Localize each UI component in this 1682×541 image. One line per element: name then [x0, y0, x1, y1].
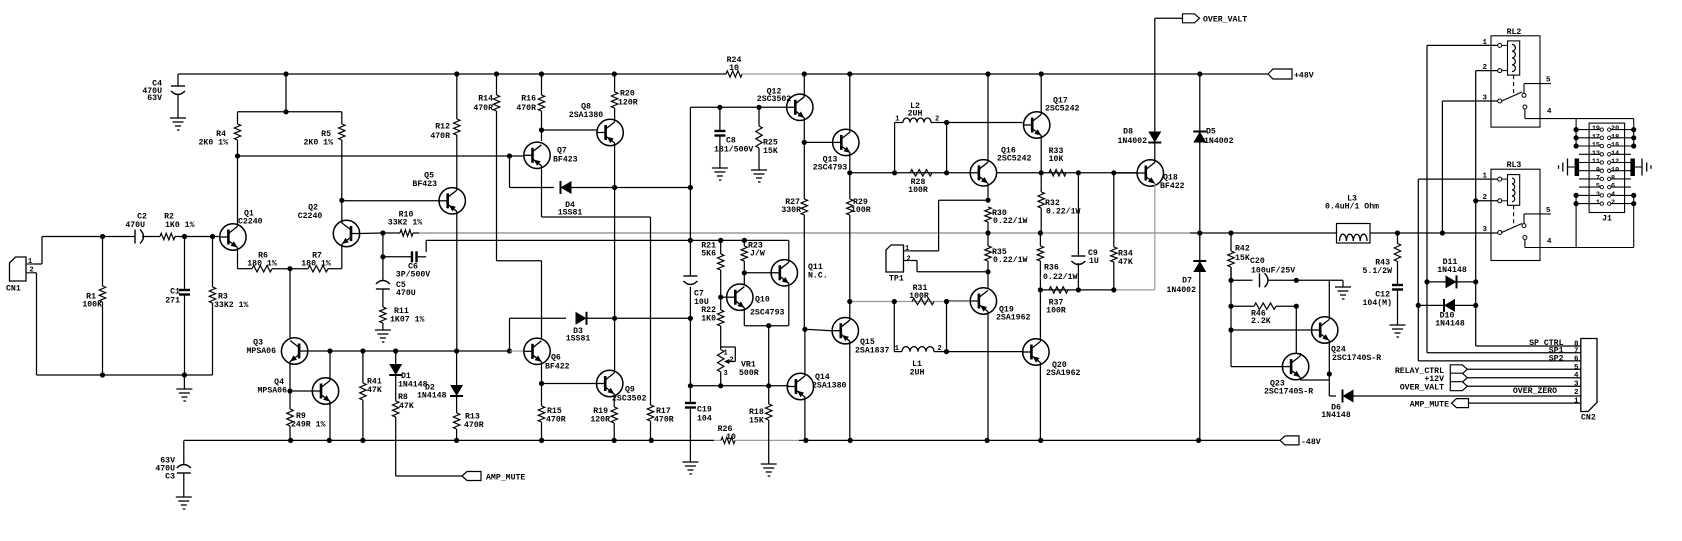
resistor R41: [360, 351, 382, 440]
resistor R3: [209, 237, 248, 310]
svg-text:1SS81: 1SS81: [566, 334, 591, 343]
svg-text:Q7: Q7: [557, 147, 567, 156]
svg-text:R8: R8: [398, 393, 408, 402]
power +48V tag: [1268, 69, 1314, 81]
svg-text:BF422: BF422: [1160, 182, 1185, 191]
svg-text:2K0 1%: 2K0 1%: [304, 139, 334, 148]
resistor R19: [590, 407, 617, 440]
svg-text:1SS81: 1SS81: [558, 209, 583, 218]
resistor R18: [749, 386, 772, 464]
resistor R13: [453, 413, 483, 441]
wire Q13 emitter drive line: [847, 170, 970, 175]
svg-text:330R: 330R: [781, 206, 801, 215]
wire Q12 base column: [689, 107, 691, 403]
svg-text:2SC4793: 2SC4793: [813, 163, 847, 172]
capacitor C19: [685, 403, 712, 462]
svg-text:470R: 470R: [473, 104, 493, 113]
wire Q7 collector to R17: [542, 166, 651, 405]
resistor R43: [1363, 233, 1401, 285]
node Q1 collector / Q7 base line: [235, 153, 524, 158]
svg-text:3: 3: [1574, 381, 1579, 389]
resistor R20: [611, 74, 637, 122]
wire R14 to Q6 collector: [497, 111, 542, 338]
svg-text:1: 1: [895, 345, 899, 353]
wire input ground bus: [100, 303, 213, 378]
svg-text:180 1%: 180 1%: [301, 259, 331, 268]
diode D11: [1427, 258, 1476, 288]
transistor Q13: [813, 74, 859, 173]
transistor Q18: [1114, 145, 1185, 290]
svg-text:4: 4: [1547, 108, 1552, 116]
transistor Q6: [524, 338, 570, 383]
wire Q3 base line: [330, 348, 524, 353]
net AMP_MUTE tag cn2: [1410, 399, 1581, 410]
net RELAY_CTRL tag: [1395, 365, 1581, 376]
resistor R8: [393, 393, 414, 476]
svg-text:5.1/2W: 5.1/2W: [1363, 266, 1393, 276]
node R35 bottom: [985, 269, 990, 288]
resistor R10: [383, 211, 422, 237]
svg-text:Q10: Q10: [755, 296, 770, 305]
svg-text:1N4148: 1N4148: [1435, 319, 1465, 328]
svg-text:5: 5: [1574, 364, 1579, 372]
svg-text:CN1: CN1: [6, 285, 21, 294]
wire J1 top bus: [1525, 119, 1636, 149]
connector TP1: [886, 245, 911, 284]
svg-text:CN2: CN2: [1581, 414, 1596, 423]
svg-text:J/W: J/W: [750, 249, 765, 259]
svg-text:4: 4: [1574, 372, 1579, 380]
svg-text:TP1: TP1: [889, 275, 904, 284]
svg-text:271: 271: [165, 297, 180, 306]
svg-text:2.2K: 2.2K: [1251, 317, 1271, 326]
wire TP1 pin1: [911, 200, 988, 251]
wire RL2 pin1 long: [1427, 44, 1498, 46]
svg-text:10K: 10K: [1049, 155, 1064, 164]
svg-text:1K0: 1K0: [701, 315, 716, 324]
svg-text:180 1%: 180 1%: [247, 259, 277, 268]
resistor R15: [538, 384, 565, 441]
resistor R42: [1228, 233, 1250, 280]
wire CN1 pin2 to ground bus: [34, 273, 103, 375]
resistor R5: [304, 112, 345, 201]
svg-text:63V: 63V: [147, 94, 162, 103]
transistor Q12: [757, 74, 813, 142]
svg-text:2UH: 2UH: [908, 109, 923, 118]
transistor Q9: [597, 370, 647, 407]
svg-text:0.4uH/1 Ohm: 0.4uH/1 Ohm: [1325, 201, 1379, 211]
resistor R33: [997, 147, 1138, 176]
svg-text:-48V: -48V: [1301, 438, 1321, 447]
wire PNP drive return line: [1038, 287, 1155, 292]
J1 shield symbol right: [1635, 159, 1651, 176]
svg-text:33K2 1%: 33K2 1%: [388, 219, 422, 228]
diode D1: [389, 351, 427, 401]
wire VAS bias line: [426, 238, 788, 252]
svg-text:2SC5242: 2SC5242: [997, 155, 1031, 164]
svg-text:47K: 47K: [367, 386, 382, 395]
svg-text:104(M): 104(M): [1363, 298, 1392, 308]
svg-text:R20: R20: [620, 90, 635, 99]
svg-text:OVER_VALT: OVER_VALT: [1203, 16, 1247, 25]
resistor R16: [516, 74, 544, 141]
ground R18: [761, 464, 777, 476]
resistor R7: [290, 252, 342, 272]
svg-text:470R: 470R: [654, 416, 674, 425]
svg-text:D7: D7: [1182, 277, 1192, 286]
node R23 Q11 base Q10 collector: [742, 270, 772, 285]
svg-text:2SA1962: 2SA1962: [996, 313, 1030, 322]
svg-text:6: 6: [1574, 355, 1579, 363]
resistor R34: [1111, 173, 1133, 290]
capacitor C8: [714, 107, 753, 168]
wire C20 ground branch: [1296, 280, 1351, 299]
wire Q5 collector to D2 chain: [456, 211, 458, 351]
text OVER_ZERO: [1513, 387, 1557, 396]
wire RL2 pin2 long: [1476, 70, 1498, 72]
ground C12: [1390, 325, 1406, 337]
wire -48V bottom rail: [184, 438, 1280, 443]
relay RL2: [1482, 28, 1552, 127]
capacitor C12: [1363, 285, 1403, 325]
transistor Q7: [524, 142, 578, 168]
wire Q7 base jog: [510, 156, 555, 188]
wire SP1 column: [1424, 45, 1580, 352]
svg-text:R36: R36: [1044, 264, 1059, 273]
svg-text:15K: 15K: [749, 417, 764, 426]
svg-text:R16: R16: [521, 95, 536, 104]
svg-text:0.22/1W: 0.22/1W: [993, 216, 1027, 226]
svg-text:Q6: Q6: [551, 354, 561, 363]
capacitor C3: [155, 440, 190, 497]
wire D3 feed: [510, 318, 567, 351]
resistor R23: [741, 240, 765, 272]
connector CN2: [1581, 339, 1597, 423]
svg-text:2: 2: [935, 115, 939, 123]
J1 shield symbol left: [1559, 159, 1575, 176]
resistor R32: [1038, 173, 1080, 233]
svg-text:D8: D8: [1123, 128, 1133, 137]
svg-text:2SA1837: 2SA1837: [855, 346, 889, 355]
node Q16 emitter TP tap: [985, 198, 990, 203]
wire RL2 pin3 riser: [1442, 101, 1497, 233]
svg-text:1: 1: [1574, 398, 1579, 406]
net OVER_VALT tag cn2: [1400, 382, 1581, 393]
potentiometer VR1: [718, 346, 759, 386]
diode D3: [566, 312, 693, 344]
ground C3: [176, 497, 192, 509]
svg-text:BF423: BF423: [553, 156, 578, 165]
svg-text:C8: C8: [726, 137, 736, 146]
wire Q12 base line: [690, 105, 786, 110]
svg-text:470U: 470U: [125, 221, 145, 230]
resistor R12: [430, 74, 460, 188]
resistor R9: [287, 391, 326, 440]
text SP_CTRL SP1 SP2: [1529, 339, 1563, 363]
svg-text:104: 104: [697, 415, 712, 424]
transistor Q23: [1231, 306, 1329, 396]
wire Q8 collector column: [612, 143, 617, 370]
resistor R36: [1037, 233, 1077, 290]
svg-text:5K6: 5K6: [701, 250, 716, 259]
svg-text:1: 1: [724, 350, 728, 358]
ground C4: [170, 118, 186, 130]
transistor Q19: [947, 288, 1031, 441]
svg-text:100R: 100R: [851, 206, 871, 215]
svg-text:2: 2: [907, 256, 911, 264]
ground C8: [712, 168, 728, 180]
svg-text:2: 2: [1574, 389, 1579, 397]
transistor Q15: [832, 299, 889, 441]
resistor R30: [985, 207, 1028, 233]
svg-text:1N4148: 1N4148: [417, 392, 447, 401]
svg-text:0.22/1W: 0.22/1W: [1043, 272, 1077, 282]
inductor L1: [894, 302, 949, 378]
node Q23 Q24 collectors: [1327, 371, 1332, 396]
svg-text:33K2 1%: 33K2 1%: [214, 301, 248, 310]
resistor R24: [726, 56, 742, 77]
diode D5: [1193, 74, 1233, 233]
svg-text:470R: 470R: [464, 421, 484, 430]
svg-text:AMP_MUTE: AMP_MUTE: [486, 474, 525, 483]
svg-text:MPSA06: MPSA06: [258, 387, 288, 396]
resistor R35: [985, 233, 1028, 272]
diode D7: [1167, 233, 1207, 440]
svg-text:0.22/1W: 0.22/1W: [993, 255, 1027, 265]
ground R11: [375, 330, 391, 342]
diode D10: [1418, 299, 1475, 328]
connector J1: [1589, 123, 1625, 223]
svg-text:2SC1740S-R: 2SC1740S-R: [1332, 354, 1381, 363]
wire rail feed to R4 R5: [238, 74, 342, 114]
svg-text:3: 3: [724, 370, 728, 378]
svg-text:2: 2: [30, 267, 34, 275]
svg-text:470R: 470R: [430, 132, 450, 141]
svg-text:2SC3502: 2SC3502: [612, 395, 646, 404]
transistor Q4: [258, 348, 339, 440]
transistor Q10: [721, 284, 785, 318]
wire +48V top rail: [178, 71, 1268, 76]
wire bias bottom line: [688, 383, 789, 388]
wire SP_CTRL column: [1473, 71, 1581, 346]
node Q9 base tee: [539, 381, 596, 386]
svg-text:C2240: C2240: [238, 218, 263, 227]
svg-text:C19: C19: [697, 406, 712, 415]
svg-text:3P/500V: 3P/500V: [396, 270, 430, 280]
svg-text:470R: 470R: [516, 104, 536, 113]
wire mute left column: [1228, 267, 1233, 367]
diode D2: [417, 351, 463, 413]
transistor Q20: [1023, 290, 1081, 441]
svg-text:RL2: RL2: [1507, 28, 1522, 37]
capacitor C6: [383, 251, 430, 279]
svg-text:R12: R12: [435, 123, 450, 132]
transistor Q16: [970, 74, 1031, 200]
wire Q17 base line: [947, 122, 1023, 124]
capacitor C1: [165, 237, 190, 376]
wire Q20 base line: [947, 351, 1023, 353]
svg-text:15K: 15K: [1235, 254, 1250, 263]
svg-text:3: 3: [1482, 226, 1487, 234]
svg-text:1: 1: [905, 245, 909, 253]
svg-text:47K: 47K: [1118, 258, 1133, 267]
svg-text:5: 5: [1546, 77, 1551, 85]
wire SP2 column: [1416, 179, 1581, 361]
wire J1 bottom bus: [1525, 193, 1636, 248]
transistor Q14: [787, 329, 846, 440]
svg-text:BF422: BF422: [545, 363, 570, 372]
transistor Q24: [1231, 280, 1381, 374]
svg-text:1K0 1%: 1K0 1%: [165, 221, 195, 230]
svg-text:5: 5: [1546, 207, 1551, 215]
resistor R1: [82, 237, 105, 376]
svg-text:7: 7: [1574, 347, 1579, 355]
svg-text:500R: 500R: [739, 369, 759, 378]
inductor L3: [1325, 195, 1379, 244]
resistor R28: [908, 170, 932, 195]
svg-text:1: 1: [28, 258, 32, 266]
wire RL3 pin1 long: [1418, 178, 1497, 180]
svg-text:249R 1%: 249R 1%: [291, 421, 325, 430]
transistor Q3: [247, 338, 330, 391]
resistor R26: [718, 425, 736, 444]
diode D8: [1118, 18, 1162, 146]
resistor R25: [756, 107, 778, 170]
svg-text:1: 1: [895, 115, 899, 123]
svg-text:OVER_ZERO: OVER_ZERO: [1513, 387, 1557, 396]
transistor Q17: [1023, 74, 1079, 175]
svg-text:J1: J1: [1602, 215, 1612, 224]
text CN2 pin numbers: [1574, 341, 1579, 406]
svg-text:470R: 470R: [546, 416, 566, 425]
svg-text:1N4002: 1N4002: [1204, 137, 1234, 146]
svg-text:2UH: 2UH: [910, 369, 925, 378]
net +12V tag: [1424, 373, 1580, 384]
wire AMP_MUTE stub: [396, 475, 462, 477]
svg-text:2: 2: [938, 345, 942, 353]
power -48V tag: [1280, 436, 1321, 447]
svg-text:2SC4793: 2SC4793: [750, 309, 784, 318]
svg-text:100R: 100R: [908, 186, 928, 195]
wire TP1 pin2: [911, 261, 988, 272]
svg-text:1N4148: 1N4148: [1321, 411, 1351, 420]
svg-text:2SA1380: 2SA1380: [812, 381, 846, 390]
net OVER_VALT tag top: [1155, 14, 1248, 25]
capacitor C5: [376, 281, 416, 308]
wire input node line: [100, 234, 219, 239]
svg-text:47K: 47K: [399, 402, 414, 411]
svg-text:2SC5242: 2SC5242: [1045, 104, 1079, 113]
transistor Q5: [342, 172, 466, 215]
svg-text:R14: R14: [478, 95, 493, 104]
svg-text:N.C.: N.C.: [808, 271, 828, 280]
net AMP_MUTE tag left: [462, 472, 525, 483]
node Q2 base feedback: [380, 230, 385, 281]
resistor R6: [238, 252, 291, 272]
ground C19: [682, 462, 698, 474]
svg-text:1N4002: 1N4002: [1118, 137, 1148, 146]
resistor R27: [781, 142, 807, 329]
diode D6: [1321, 390, 1581, 421]
svg-text:1K07 1%: 1K07 1%: [390, 315, 424, 324]
wire Q19 Q20 base drive line: [850, 299, 970, 304]
wire J1 mid row stubs: [1579, 154, 1631, 187]
svg-text:100R: 100R: [1046, 307, 1066, 316]
relay RL3: [1482, 161, 1552, 260]
svg-text:181/500V: 181/500V: [714, 145, 753, 155]
capacitor C7: [683, 276, 708, 307]
resistor R22: [701, 297, 724, 346]
connector CN1: [6, 257, 34, 294]
transistor Q8: [569, 103, 624, 146]
svg-text:10: 10: [726, 433, 736, 442]
svg-text:470U: 470U: [396, 289, 416, 298]
resistor R46: [1228, 303, 1299, 326]
wire RL3 pin2: [1473, 198, 1498, 203]
resistor R14: [473, 74, 499, 113]
svg-text:4: 4: [1547, 238, 1552, 246]
capacitor C20: [1228, 257, 1299, 288]
svg-text:C20: C20: [1250, 257, 1265, 266]
svg-text:C3: C3: [165, 472, 175, 481]
node Q13 base: [802, 140, 833, 145]
resistor R11: [380, 307, 425, 330]
svg-text:+48V: +48V: [1294, 72, 1314, 81]
svg-text:SP2: SP2: [1549, 354, 1564, 363]
wire CN1 pin1 to input node: [34, 237, 103, 265]
node Q8 base tee: [539, 127, 597, 132]
svg-text:Q9: Q9: [625, 386, 635, 395]
svg-text:120R: 120R: [590, 416, 610, 425]
svg-text:R42: R42: [1235, 245, 1250, 254]
wire output line: [419, 230, 1499, 235]
resistor R2: [142, 213, 195, 240]
svg-text:1U: 1U: [1089, 257, 1099, 266]
transistor Q1: [220, 156, 263, 269]
svg-text:2: 2: [730, 357, 734, 365]
svg-text:RL3: RL3: [1507, 161, 1522, 170]
svg-text:2SA1962: 2SA1962: [1046, 369, 1080, 378]
resistor R21: [701, 240, 724, 296]
svg-text:15K: 15K: [763, 147, 778, 156]
svg-text:120R: 120R: [618, 99, 638, 108]
ground R25: [751, 170, 767, 182]
transistor Q11: [771, 240, 828, 286]
resistor R29: [847, 173, 871, 302]
svg-text:D5: D5: [1206, 128, 1216, 137]
diode D4: [558, 181, 693, 218]
capacitor C2: [125, 213, 147, 244]
node Q10 base: [718, 295, 723, 300]
transistor Q2: [298, 198, 383, 269]
svg-text:100R: 100R: [909, 292, 929, 301]
resistor R4: [199, 112, 241, 156]
svg-text:100uF/25V: 100uF/25V: [1251, 265, 1295, 275]
inductor L2: [895, 102, 950, 173]
svg-text:C1: C1: [170, 288, 180, 297]
wire Q10 Q11 emitters: [744, 283, 789, 386]
svg-text:AMP_MUTE: AMP_MUTE: [1410, 401, 1449, 410]
svg-text:1N4148: 1N4148: [398, 381, 428, 390]
capacitor C4: [142, 74, 185, 118]
svg-text:1N4002: 1N4002: [1167, 286, 1197, 295]
svg-text:BF423: BF423: [412, 180, 437, 189]
svg-text:0.22/1W: 0.22/1W: [1046, 206, 1080, 216]
resistor R31: [909, 284, 934, 305]
ground input bus: [176, 375, 192, 401]
svg-text:MPSA06: MPSA06: [247, 347, 277, 356]
svg-text:C2240: C2240: [298, 212, 323, 221]
